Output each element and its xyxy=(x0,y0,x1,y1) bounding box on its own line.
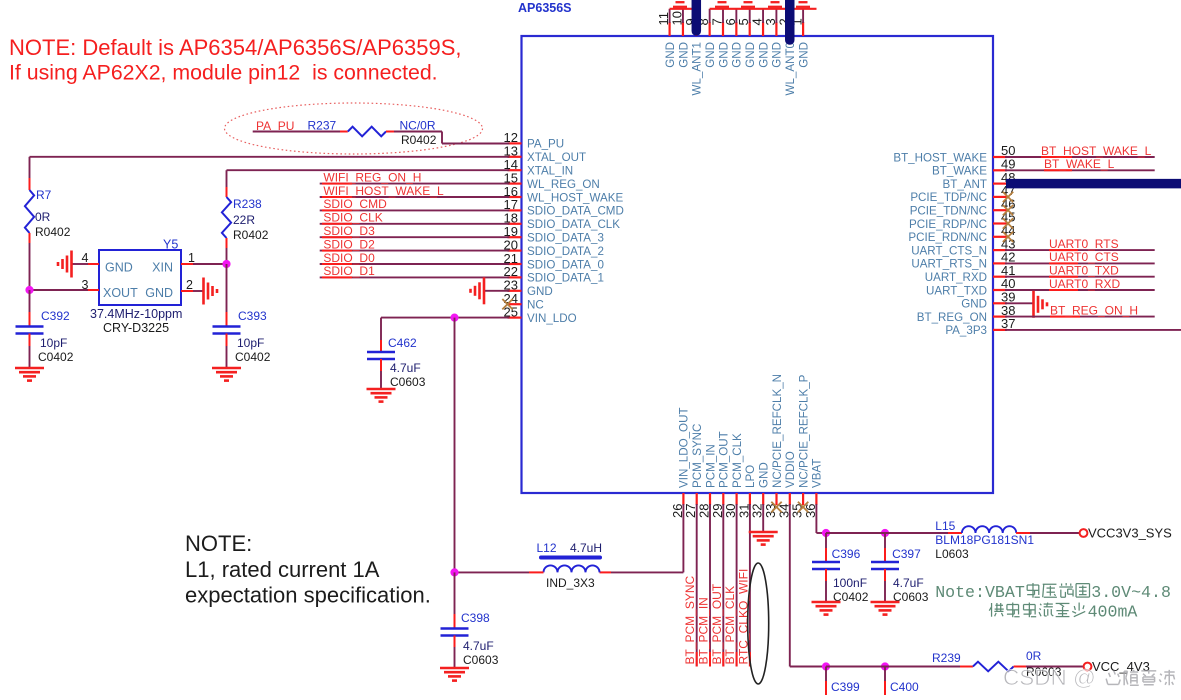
note VBAT chinese green xyxy=(935,583,1171,602)
svg-text:4: 4 xyxy=(82,251,89,265)
svg-text:L12: L12 xyxy=(537,541,557,555)
pin 44 PCIE_RDN/NC xyxy=(908,223,1015,244)
wire/net SDIO_CMD pin 17 xyxy=(320,197,510,211)
svg-text:PCIE_TDN/NC: PCIE_TDN/NC xyxy=(910,205,987,218)
pin 30 PCM_CLK xyxy=(723,433,744,518)
svg-text:BT_PCM_SYNC: BT_PCM_SYNC xyxy=(683,575,697,664)
svg-text:VDDIO: VDDIO xyxy=(784,451,797,488)
svg-text:GND: GND xyxy=(771,42,784,68)
node XIN junction xyxy=(222,260,230,268)
svg-text:UART0_RXD: UART0_RXD xyxy=(1049,277,1120,291)
pin 25 VIN_LDO xyxy=(504,304,577,325)
wire C398 to ground xyxy=(454,636,456,668)
wire XOUT node to C392 xyxy=(29,290,31,327)
wire/net BT_REG_ON_H pin38 xyxy=(1005,303,1155,317)
svg-text:GND: GND xyxy=(527,285,553,298)
pin 36 VBAT xyxy=(803,459,824,518)
svg-text:C0402: C0402 xyxy=(235,350,271,364)
svg-text:PCM_CLK: PCM_CLK xyxy=(731,433,744,488)
ground crystal pin2 (sideways) xyxy=(204,278,218,305)
no-connect X pin46 xyxy=(1003,205,1013,215)
no-connect X pin35 xyxy=(798,502,808,512)
node junction L12/C398 xyxy=(450,568,458,576)
svg-text:Y5: Y5 xyxy=(163,238,178,252)
wire VBAT pin36 to upper rail xyxy=(816,504,826,533)
wire rail to R239 xyxy=(826,666,973,668)
node junction C397 xyxy=(881,529,889,537)
pin 33 NC/PCIE_REFCLK_N xyxy=(763,374,784,518)
wire/net UART0_RTS pin43 xyxy=(1005,237,1155,251)
svg-text:GND: GND xyxy=(145,286,173,300)
svg-text:C0603: C0603 xyxy=(463,653,499,667)
node junction C396 xyxy=(822,529,830,537)
svg-text:C393: C393 xyxy=(238,309,267,323)
wire C392 to ground xyxy=(29,334,31,368)
wire WL_ANT1 antenna (thick) xyxy=(692,0,702,31)
pin 13 XTAL_OUT xyxy=(504,144,587,165)
svg-text:UART_TXD: UART_TXD xyxy=(926,284,987,297)
wire/net UART0_CTS pin42 xyxy=(1005,250,1155,264)
wire/net BT_HOST_WAKE_L pin50 xyxy=(1005,144,1155,158)
pin 23 GND xyxy=(504,278,553,299)
pin 32 GND xyxy=(750,462,771,518)
svg-text:SDIO_D0: SDIO_D0 xyxy=(323,251,375,265)
wire/net SDIO_D3 pin 19 xyxy=(320,224,510,238)
svg-text:1: 1 xyxy=(188,251,195,265)
svg-text:3.0V~4.8: 3.0V~4.8 xyxy=(1091,583,1171,602)
resistor R237 NC/0R xyxy=(308,119,437,148)
svg-text:WL_REG_ON: WL_REG_ON xyxy=(527,178,600,191)
pin 42 UART_RTS_N xyxy=(911,250,1015,271)
pin 12 PA_PU xyxy=(504,130,565,151)
svg-text:XIN: XIN xyxy=(152,261,173,275)
svg-text:UART0_CTS: UART0_CTS xyxy=(1049,250,1119,264)
wire/net BT_PCM_SYNC pin27 xyxy=(683,504,697,667)
svg-text:R237: R237 xyxy=(308,119,337,133)
pin 6 GND xyxy=(723,18,744,68)
highlight oval on PCM nets xyxy=(748,563,769,684)
svg-text:L15: L15 xyxy=(935,519,955,533)
wire/net WIFI_REG_ON_H pin 15 xyxy=(320,170,510,184)
pin 37 PA_3P3 xyxy=(945,316,1015,337)
node junction C400 xyxy=(881,662,889,670)
resistor R239 0R xyxy=(932,649,1062,679)
wire PA_PU to R237 xyxy=(307,131,348,133)
svg-text:C398: C398 xyxy=(461,611,490,625)
wire L15 to VCC3V3_SYS xyxy=(1016,532,1079,534)
svg-text:BT_REG_ON: BT_REG_ON xyxy=(917,311,987,324)
svg-text:VCC3V3_SYS: VCC3V3_SYS xyxy=(1088,526,1172,541)
svg-text:UART_RXD: UART_RXD xyxy=(925,271,987,284)
svg-text:C397: C397 xyxy=(892,547,921,561)
svg-text:BT_WAKE_L: BT_WAKE_L xyxy=(1044,157,1115,171)
svg-text:PA_3P3: PA_3P3 xyxy=(945,324,987,337)
svg-text:SDIO_DATA_3: SDIO_DATA_3 xyxy=(527,232,604,245)
pin 3 GND xyxy=(763,18,784,68)
pin 1 crystal XIN xyxy=(181,251,227,265)
svg-text:WIFI_REG_ON_H: WIFI_REG_ON_H xyxy=(323,170,421,184)
wire/net BT_PCM_OUT pin29 xyxy=(710,504,724,667)
pin 21 SDIO_DATA_0 xyxy=(504,251,604,272)
svg-text:AP6356S: AP6356S xyxy=(518,1,572,15)
svg-text:L0603: L0603 xyxy=(935,547,969,561)
svg-text:C399: C399 xyxy=(831,680,860,694)
pin 39 GND xyxy=(961,290,1015,311)
wire PA_3P3 pin37 xyxy=(1005,329,1181,331)
svg-text:R0402: R0402 xyxy=(233,228,269,242)
svg-text:4.7uF: 4.7uF xyxy=(893,576,924,590)
wire/net SDIO_D1 pin 22 xyxy=(320,264,510,278)
wire C393 to ground xyxy=(226,334,228,368)
pin 24 NC xyxy=(504,291,544,312)
wire C396 to ground xyxy=(825,569,827,601)
svg-text:GND: GND xyxy=(797,42,810,68)
watermark CSDN xyxy=(1003,665,1175,690)
svg-text:NC/PCIE_REFCLK_N: NC/PCIE_REFCLK_N xyxy=(771,374,784,488)
capacitor C393 10pF xyxy=(213,309,271,364)
svg-text:GND: GND xyxy=(717,42,730,68)
wire R238 to XIN node xyxy=(226,238,228,264)
svg-text:PCM_IN: PCM_IN xyxy=(704,444,717,488)
svg-text:400mA: 400mA xyxy=(1088,603,1138,622)
svg-text:37.4MHz-10ppm: 37.4MHz-10ppm xyxy=(90,307,182,321)
ground pin39 (sideways) xyxy=(1034,291,1048,318)
svg-text:GND: GND xyxy=(757,42,770,68)
pin 9 WL_ANT1 xyxy=(683,18,704,95)
wire junction to C398 xyxy=(454,572,456,628)
no-connect X pin45 xyxy=(1003,218,1013,228)
svg-text:PCM_OUT: PCM_OUT xyxy=(718,431,731,488)
pin 18 SDIO_DATA_CLK xyxy=(504,211,621,232)
ground C462 xyxy=(367,389,396,402)
ground symbols above top pins xyxy=(673,2,810,7)
svg-text:0R: 0R xyxy=(35,210,51,224)
svg-text:IND_3X3: IND_3X3 xyxy=(546,576,595,590)
ground C396 xyxy=(812,602,841,615)
pin 2 WL_ANT0 xyxy=(776,18,797,95)
svg-text:LPO: LPO xyxy=(744,465,757,488)
pin 38 BT_REG_ON xyxy=(917,303,1016,324)
node junction C399 xyxy=(822,662,830,670)
wire/net BT_WAKE_L pin49 xyxy=(1005,157,1155,171)
svg-text:PCIE_RDP/NC: PCIE_RDP/NC xyxy=(909,218,987,231)
note top-left red xyxy=(9,35,462,85)
svg-text:GND: GND xyxy=(105,261,133,275)
svg-text:R0402: R0402 xyxy=(401,133,437,147)
pin 19 SDIO_DATA_3 xyxy=(504,224,604,245)
ground C398 xyxy=(440,668,469,681)
svg-text:NOTE:: NOTE: xyxy=(185,531,252,556)
resistor R7 0R xyxy=(25,188,71,239)
svg-text:VCC_4V3: VCC_4V3 xyxy=(1092,659,1150,674)
pin 48 BT_ANT xyxy=(943,170,1016,191)
svg-text:4.7uH: 4.7uH xyxy=(570,541,602,555)
ground C393 xyxy=(212,368,241,381)
pin 15 WL_REG_ON xyxy=(504,170,600,191)
note bottom-left black xyxy=(185,531,431,608)
svg-text:GND: GND xyxy=(731,42,744,68)
svg-text:BT_PCM_OUT: BT_PCM_OUT xyxy=(710,583,724,664)
svg-text:GND: GND xyxy=(704,42,717,68)
no-connect X pin44 xyxy=(1003,232,1013,242)
wire/net WIFI_HOST_WAKE_L pin 16 xyxy=(320,184,510,198)
svg-text:SDIO_DATA_CMD: SDIO_DATA_CMD xyxy=(527,205,624,218)
pin 11 GND xyxy=(656,12,677,68)
pin 22 SDIO_DATA_1 xyxy=(504,264,604,285)
pin 17 SDIO_DATA_CMD xyxy=(504,197,624,218)
wire VIN_LDO_OUT pin26 to L12 xyxy=(600,504,684,572)
svg-text:UART_CTS_N: UART_CTS_N xyxy=(911,244,987,257)
svg-text:BT_ANT: BT_ANT xyxy=(943,178,987,191)
pin 50 BT_HOST_WAKE xyxy=(893,143,1015,164)
svg-text:UART0_RTS: UART0_RTS xyxy=(1049,237,1119,251)
pin 16 WL_HOST_WAKE xyxy=(504,184,624,205)
svg-text:10pF: 10pF xyxy=(40,336,67,350)
svg-text:NC/0R: NC/0R xyxy=(400,119,436,133)
svg-text:UART0_TXD: UART0_TXD xyxy=(1049,264,1119,278)
pin 28 PCM_IN xyxy=(697,444,718,518)
inductor L15 BLM18PG181SN1 xyxy=(935,519,1034,561)
pin 3 crystal XOUT xyxy=(30,278,100,292)
wire WL_ANT0 antenna (thick) xyxy=(785,0,795,40)
svg-text:SDIO_DATA_1: SDIO_DATA_1 xyxy=(527,272,604,285)
svg-text:XTAL_OUT: XTAL_OUT xyxy=(527,151,586,164)
svg-text:10pF: 10pF xyxy=(237,336,264,350)
svg-text:PA_PU: PA_PU xyxy=(527,138,564,151)
pin 41 UART_RXD xyxy=(925,263,1016,284)
svg-text:BT_REG_ON_H: BT_REG_ON_H xyxy=(1050,303,1138,317)
no-connect X pin24 xyxy=(502,299,512,309)
svg-text:BT_PCM_IN: BT_PCM_IN xyxy=(697,597,711,664)
wire C397 to ground xyxy=(884,569,886,601)
pin 26 VIN_LDO_OUT xyxy=(670,407,691,518)
svg-text:SDIO_D2: SDIO_D2 xyxy=(323,237,375,251)
wire/net BT_PCM_CLK pin30 xyxy=(723,504,737,667)
pin 29 PCM_OUT xyxy=(710,431,731,518)
capacitor C397 4.7uF xyxy=(871,533,929,604)
svg-text:100nF: 100nF xyxy=(833,576,867,590)
wire pin32 GND xyxy=(762,504,764,531)
svg-text:SDIO_CLK: SDIO_CLK xyxy=(323,211,382,225)
svg-text:SDIO_DATA_2: SDIO_DATA_2 xyxy=(527,245,604,258)
wire/net SDIO_D0 pin 21 xyxy=(320,251,510,265)
svg-text:NC: NC xyxy=(527,299,544,312)
svg-text:C462: C462 xyxy=(388,336,417,350)
svg-text:SDIO_CMD: SDIO_CMD xyxy=(323,197,387,211)
wire R239 to VCC_4V3 xyxy=(1014,666,1084,668)
node XOUT junction xyxy=(25,286,33,294)
pin 47 PCIE_TDP/NC xyxy=(910,183,1015,204)
svg-text:R238: R238 xyxy=(233,197,262,211)
pin 2 crystal GND xyxy=(181,278,203,292)
svg-text:BT_PCM_CLK: BT_PCM_CLK xyxy=(723,586,737,665)
wire/net UART0_TXD pin41 xyxy=(1005,264,1155,278)
net label PA_PU xyxy=(253,119,307,133)
wire rail to L15 xyxy=(826,532,962,534)
power VCC_4V3 xyxy=(1084,659,1150,674)
svg-text:PCIE_RDN/NC: PCIE_RDN/NC xyxy=(908,231,987,244)
svg-text:4.7uF: 4.7uF xyxy=(390,361,421,375)
wire vertical VIN_LDO branch xyxy=(454,318,456,573)
crystal Y5 CRY-D3225 xyxy=(90,238,182,336)
pin 1 GND xyxy=(790,18,811,68)
svg-text:L1, rated current 1A: L1, rated current 1A xyxy=(185,557,380,582)
pin 49 BT_WAKE xyxy=(932,157,1015,178)
op-amp U1 AP6356S module body xyxy=(518,1,993,493)
svg-text:If using AP62X2, module pin12: If using AP62X2, module pin12 is connect… xyxy=(9,61,438,85)
capacitor C398 4.7uF xyxy=(441,611,499,667)
svg-text:PCIE_TDP/NC: PCIE_TDP/NC xyxy=(910,191,987,204)
svg-text:GND: GND xyxy=(744,42,757,68)
svg-text:expectation specification.: expectation specification. xyxy=(185,583,431,608)
resistor R238 22R xyxy=(222,197,269,242)
svg-text:4.7uF: 4.7uF xyxy=(463,639,494,653)
svg-text:R0402: R0402 xyxy=(35,225,71,239)
svg-text:22R: 22R xyxy=(233,213,255,227)
wire R237 to pin12 xyxy=(386,132,510,144)
pin 46 PCIE_TDN/NC xyxy=(910,196,1016,217)
svg-text:Note:VBAT: Note:VBAT xyxy=(935,583,1025,602)
inductor L12 4.7uH IND_3X3 xyxy=(537,541,603,590)
svg-text:XTAL_IN: XTAL_IN xyxy=(527,165,573,178)
ground C392 xyxy=(15,368,44,381)
wire L12 to VIN_LDO branch xyxy=(455,571,544,573)
pin 5 GND xyxy=(736,18,757,68)
pin 4 GND xyxy=(750,18,771,68)
pin 10 GND xyxy=(669,11,690,68)
wire/net SDIO_D2 pin 20 xyxy=(320,237,510,251)
pin 7 GND xyxy=(710,18,731,68)
pin 45 PCIE_RDP/NC xyxy=(909,210,1015,231)
no-connect X pin47 xyxy=(1003,192,1013,202)
node junction VIN_LDO / C462 branch xyxy=(450,314,458,322)
wire VDDIO pin34 to lower rail xyxy=(790,504,826,667)
svg-text:SDIO_D1: SDIO_D1 xyxy=(323,264,375,278)
svg-text:GND: GND xyxy=(677,42,690,68)
pin 40 UART_TXD xyxy=(926,276,1015,297)
wire C462 to ground xyxy=(380,359,382,388)
svg-text:C392: C392 xyxy=(41,309,70,323)
svg-text:BT_HOST_WAKE_L: BT_HOST_WAKE_L xyxy=(1041,144,1152,158)
svg-text:UART_RTS_N: UART_RTS_N xyxy=(911,258,987,271)
capacitor C400 (lead) xyxy=(885,667,919,696)
pin 20 SDIO_DATA_2 xyxy=(504,237,604,258)
ground pin23 (sideways) xyxy=(471,277,510,304)
svg-text:2: 2 xyxy=(186,278,193,292)
svg-text:BT_HOST_WAKE: BT_HOST_WAKE xyxy=(893,151,987,164)
svg-text:0R: 0R xyxy=(1026,649,1042,663)
ground pin32 xyxy=(749,532,778,545)
svg-text:C396: C396 xyxy=(832,547,861,561)
svg-text:GND: GND xyxy=(758,462,771,488)
svg-text:VIN_LDO: VIN_LDO xyxy=(527,312,577,325)
capacitor C462 4.7uF xyxy=(367,336,426,389)
no-connect X pin33 xyxy=(771,502,781,512)
svg-text:WL_HOST_WAKE: WL_HOST_WAKE xyxy=(527,191,623,204)
wire/net SDIO_CLK pin 18 xyxy=(320,211,510,225)
svg-text:NOTE: Default is AP6354/AP6356: NOTE: Default is AP6354/AP6356S/AP6359S, xyxy=(9,35,462,60)
svg-text:VBAT: VBAT xyxy=(811,459,824,488)
svg-text:C0402: C0402 xyxy=(38,350,74,364)
wire XTAL_OUT pin13 to R7 xyxy=(30,157,510,190)
pin 14 XTAL_IN xyxy=(504,157,574,178)
wire/net UART0_RXD pin40 xyxy=(1005,277,1155,291)
svg-text:SDIO_D3: SDIO_D3 xyxy=(323,224,375,238)
svg-text:PCM_SYNC: PCM_SYNC xyxy=(691,424,704,488)
wire VIN_LDO pin25 to C462 xyxy=(381,318,510,352)
wire XIN node to C393 xyxy=(226,264,228,327)
pin 34 VDDIO xyxy=(776,451,797,518)
svg-text:CSDN @: CSDN @ xyxy=(1003,665,1096,690)
svg-text:BLM18PG181SN1: BLM18PG181SN1 xyxy=(935,533,1034,547)
ground crystal pin4 (sideways) xyxy=(58,251,72,278)
wire R7 to XOUT node xyxy=(29,233,31,290)
svg-text:VIN_LDO_OUT: VIN_LDO_OUT xyxy=(678,407,691,488)
power VCC3V3_SYS xyxy=(1080,526,1173,541)
svg-text:XOUT: XOUT xyxy=(103,286,138,300)
svg-text:C0603: C0603 xyxy=(390,375,426,389)
pin 43 UART_CTS_N xyxy=(911,236,1015,257)
pin 31 LPO xyxy=(736,465,757,518)
svg-text:WIFI_HOST_WAKE_L: WIFI_HOST_WAKE_L xyxy=(323,184,444,198)
svg-text:GND: GND xyxy=(664,42,677,68)
svg-text:SDIO_DATA_0: SDIO_DATA_0 xyxy=(527,258,604,271)
svg-text:R7: R7 xyxy=(36,188,52,202)
svg-text:GND: GND xyxy=(961,298,987,311)
pin 27 PCM_SYNC xyxy=(683,424,704,518)
wire XTAL_IN pin14 to R238 xyxy=(227,170,510,197)
svg-text:R239: R239 xyxy=(932,651,961,665)
wire/net RTC_CLKO_WIFI pin31 xyxy=(736,504,750,667)
svg-text:WL_ANT0: WL_ANT0 xyxy=(784,42,797,95)
svg-text:WL_ANT1: WL_ANT1 xyxy=(691,42,704,95)
svg-text:C400: C400 xyxy=(890,680,919,694)
wire pin39 GND xyxy=(1005,302,1034,304)
svg-text:CRY-D3225: CRY-D3225 xyxy=(103,321,169,335)
pin 35 NC/PCIE_REFCLK_P xyxy=(790,374,811,518)
wire/net BT_PCM_IN pin28 xyxy=(697,504,711,667)
svg-text:NC/PCIE_REFCLK_P: NC/PCIE_REFCLK_P xyxy=(797,374,810,488)
wire BT_ANT antenna (thick) xyxy=(1006,179,1181,189)
svg-text:SDIO_DATA_CLK: SDIO_DATA_CLK xyxy=(527,218,620,231)
pin 8 GND xyxy=(696,18,717,68)
wire top GND pins to ground bus xyxy=(670,9,817,23)
svg-text:37: 37 xyxy=(1001,316,1015,331)
capacitor C392 10pF xyxy=(16,309,74,364)
pin 4 crystal GND xyxy=(73,251,100,265)
capacitor C399 (lead) xyxy=(826,667,860,696)
capacitor C396 100nF xyxy=(812,533,869,604)
node PA_PU dotted emphasis ellipse xyxy=(225,103,483,154)
ground C397 xyxy=(871,602,900,615)
svg-text:BT_WAKE: BT_WAKE xyxy=(932,165,987,178)
